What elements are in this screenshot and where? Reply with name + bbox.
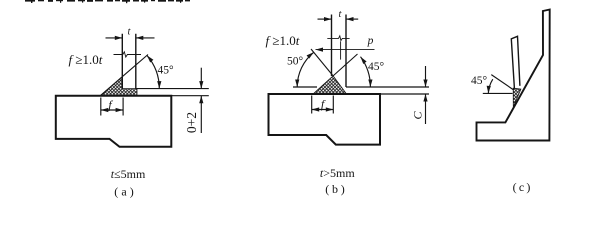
- svg-text:45°: 45°: [157, 65, 174, 77]
- 45-degree angle arc (c): [488, 79, 493, 93]
- svg-text:C: C: [411, 111, 425, 120]
- svg-text:0+2: 0+2: [184, 112, 199, 133]
- dimension f (b): [312, 96, 334, 114]
- 50-degree angle arc (b): [297, 52, 314, 87]
- svg-text:f ≥1.0t: f ≥1.0t: [69, 52, 103, 67]
- svg-text:t: t: [128, 27, 132, 38]
- svg-text:(a): (a): [114, 184, 134, 198]
- svg-text:t: t: [338, 9, 342, 20]
- leaning plate (c): [511, 36, 520, 88]
- 45-degree leader horizontal (c): [483, 92, 513, 94]
- break line on plate (a): [114, 52, 142, 57]
- break line with p leader (b): [316, 49, 375, 51]
- dimension t (a): [106, 37, 155, 39]
- weld fillet hatch (a): [100, 77, 137, 96]
- vertical attached plate (a): [122, 34, 136, 89]
- extension line at plate bottom level (a): [136, 88, 209, 90]
- base plate (b): [269, 94, 381, 145]
- svg-text:50°: 50°: [287, 56, 304, 68]
- svg-text:t≤5mm: t≤5mm: [111, 167, 146, 181]
- weld hatch (c): [513, 88, 521, 107]
- base plate (a): [56, 96, 172, 147]
- 45-degree angle arc (b): [361, 57, 371, 87]
- 50-degree bevel line (b): [311, 49, 333, 76]
- svg-text:p: p: [367, 35, 374, 47]
- 45-degree bevel line (b): [333, 54, 357, 76]
- 45-degree angle arc (a): [147, 55, 159, 88]
- svg-text:(c): (c): [513, 180, 531, 194]
- vertical attached plate (b): [332, 15, 347, 88]
- svg-text:f ≥1.0t: f ≥1.0t: [266, 33, 300, 48]
- root face tick (b): [340, 42, 342, 60]
- 45-degree leader slanted (c): [491, 75, 514, 91]
- dimension 0+2 root gap (a): [171, 68, 209, 133]
- svg-text:45°: 45°: [368, 61, 385, 73]
- dimension C root gap (b): [380, 66, 429, 124]
- svg-text:t>5mm: t>5mm: [320, 166, 355, 180]
- right shoulder extension line (b): [346, 86, 429, 88]
- weld fillet hatch (b): [313, 76, 347, 94]
- svg-text:45°: 45°: [471, 75, 488, 87]
- svg-text:f: f: [108, 98, 113, 112]
- dimension f (a): [101, 98, 123, 116]
- flanged profile outline (c): [477, 10, 550, 141]
- left shoulder extension line (b): [293, 86, 317, 88]
- svg-text:f: f: [321, 97, 326, 111]
- cropped text line at top of page: [25, 0, 190, 3]
- dimension t (b): [318, 18, 359, 20]
- break line on plate (b): [327, 36, 349, 41]
- 45-degree bevel line (a): [100, 55, 148, 96]
- svg-text:(b): (b): [325, 182, 345, 196]
